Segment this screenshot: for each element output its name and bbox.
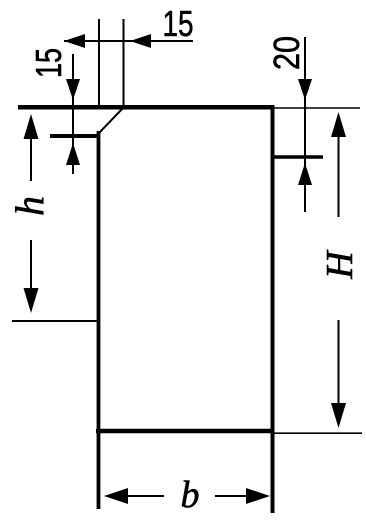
svg-text:H: H	[319, 249, 361, 280]
svg-text:b: b	[181, 474, 200, 516]
svg-text:15: 15	[28, 48, 69, 78]
svg-text:20: 20	[266, 36, 307, 70]
svg-text:h: h	[7, 196, 52, 216]
svg-text:15: 15	[163, 3, 194, 44]
